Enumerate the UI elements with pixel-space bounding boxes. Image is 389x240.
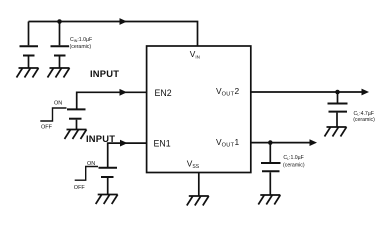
svg-text:VIN: VIN — [190, 49, 200, 60]
svg-text:EN2: EN2 — [155, 88, 172, 98]
svg-text:EN1: EN1 — [154, 138, 171, 148]
svg-text:ON: ON — [54, 101, 62, 107]
svg-text:CIN:1.0µF: CIN:1.0µF — [70, 37, 92, 43]
svg-text:VOUT1: VOUT1 — [216, 137, 239, 149]
svg-text:(ceramic): (ceramic) — [283, 163, 305, 169]
svg-text:OFF: OFF — [74, 185, 86, 191]
svg-text:ON: ON — [87, 161, 95, 167]
svg-text:CL:1.0µF: CL:1.0µF — [283, 155, 303, 161]
svg-text:VOUT2: VOUT2 — [216, 86, 239, 98]
svg-text:INPUT: INPUT — [90, 68, 119, 79]
svg-text:VSS: VSS — [187, 158, 200, 170]
svg-text:(ceramic): (ceramic) — [70, 44, 92, 50]
svg-text:(ceramic): (ceramic) — [353, 117, 375, 123]
svg-text:CL:4.7µF: CL:4.7µF — [354, 111, 374, 117]
svg-text:OFF: OFF — [41, 125, 53, 131]
svg-text:INPUT: INPUT — [86, 133, 115, 144]
